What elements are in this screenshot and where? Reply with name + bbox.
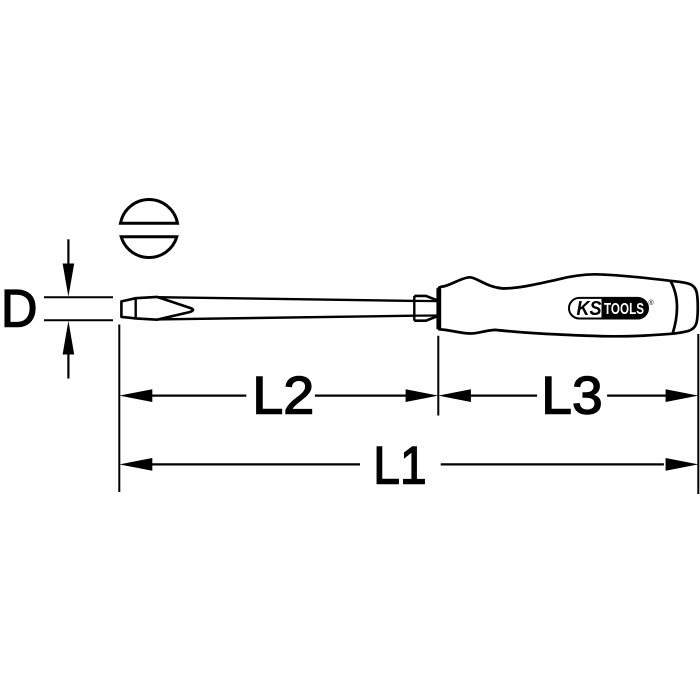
extension line middle (handle start) (437, 336, 439, 416)
L3 right arrowhead (666, 389, 699, 402)
L1 left arrowhead (119, 458, 152, 471)
L2 right arrowhead (406, 389, 439, 402)
extension line right (handle end) (697, 334, 699, 494)
hex bolster front vertical (413, 296, 415, 321)
handle body outline (439, 274, 698, 336)
L2 dimension line right segment (315, 395, 406, 397)
L1 dimension line right segment (441, 463, 664, 465)
L3 dimension line right segment (607, 395, 666, 397)
shaft top line (157, 297, 414, 301)
hex bolster outline (414, 296, 438, 321)
KS TOOLS logo black section (602, 298, 649, 319)
D arrow lower line (67, 354, 69, 379)
D arrowhead up (63, 321, 75, 355)
D arrow upper line (67, 239, 69, 264)
screw head end view: top arc with chord (121, 200, 178, 224)
KS TOOLS logo pill outline (569, 298, 648, 319)
svg-text:KS: KS (577, 298, 603, 320)
L1 dimension line left segment (152, 463, 360, 465)
svg-text:TOOLS: TOOLS (604, 301, 644, 318)
handle end cap separator arc (670, 281, 677, 334)
L2 left arrowhead (119, 389, 152, 402)
blade (flat tip) outline (121, 297, 193, 320)
L2 dimension line left segment (152, 395, 246, 397)
svg-text:L1: L1 (373, 436, 426, 495)
L3 dimension line left segment (471, 395, 537, 397)
L3 left arrowhead (438, 389, 471, 402)
handle front face thick edge (436, 288, 441, 329)
svg-text:D: D (1, 280, 37, 339)
D extension line top (44, 296, 113, 298)
screw head end view: bottom arc with chord (slot) (121, 237, 177, 258)
hex bolster facet lines (414, 301, 438, 316)
blade divider line (134, 298, 136, 318)
L1 right arrowhead (666, 458, 699, 471)
extension line left (blade tip) (118, 325, 120, 493)
D extension line bottom (44, 319, 113, 321)
svg-text:L2: L2 (252, 367, 314, 426)
svg-text:L3: L3 (541, 367, 602, 426)
svg-text:®: ® (649, 299, 655, 307)
D arrowhead down (63, 264, 75, 297)
shaft bottom line (157, 316, 414, 320)
